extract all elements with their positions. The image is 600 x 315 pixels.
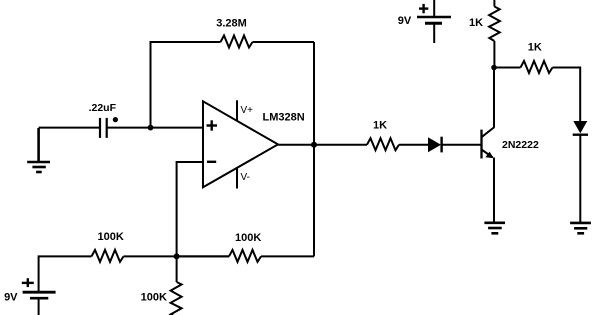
- svg-text:100K: 100K: [98, 231, 124, 243]
- resistor R3 1K vertical collector pull-up: [489, 0, 500, 68]
- resistor R2 1K output series: [367, 138, 399, 150]
- wire R7 to feedback vertical: [261, 255, 314, 257]
- diode D2 to ground: [573, 121, 588, 135]
- op-amp U1 minus input symbol: [207, 161, 216, 163]
- resistor R4 1K top right: [521, 61, 553, 73]
- node D junction dot: [174, 253, 180, 259]
- battery B1 9V top: [417, 0, 451, 43]
- resistor R6 100K vertical: [171, 256, 182, 315]
- wire D2 to ground: [579, 135, 581, 222]
- wire R2 to diode D1: [399, 144, 428, 146]
- svg-text:9V: 9V: [398, 15, 412, 27]
- svg-text:3.28M: 3.28M: [216, 18, 247, 30]
- svg-text:2N2222: 2N2222: [502, 139, 539, 151]
- wire capacitor to op-amp + input: [107, 127, 203, 129]
- wire feedback top right: [253, 41, 315, 43]
- wire feedback left vertical: [150, 42, 152, 128]
- svg-text:1K: 1K: [528, 42, 542, 54]
- wire node D to R7: [177, 255, 229, 257]
- capacitor C1 .22uF: [100, 118, 107, 138]
- svg-text:100K: 100K: [141, 292, 167, 304]
- resistor R1 3.28M: [221, 36, 253, 48]
- svg-text:LM328N: LM328N: [263, 112, 305, 124]
- wire battery B2 to R5: [39, 256, 92, 291]
- op-amp U1 V+ pin: [236, 100, 238, 121]
- wire Q1 emitter vertical: [493, 158, 495, 223]
- ground GND2 emitter: [484, 223, 505, 234]
- polarity dot of C1: [113, 117, 118, 122]
- wire node D to op-amp minus input: [177, 162, 203, 256]
- op-amp U1 V- pin: [236, 168, 238, 189]
- wire feedback top left: [150, 41, 221, 43]
- wire R5 to node D: [124, 255, 230, 257]
- ground GND1 input ground: [27, 128, 50, 172]
- wire D1 to Q1 base: [442, 144, 482, 146]
- ground GND3 right: [570, 223, 591, 233]
- op-amp U1 plus input symbol: [207, 120, 218, 130]
- wire R4 to diode D2: [553, 68, 581, 122]
- diode D1: [428, 137, 442, 153]
- node A junction dot: [148, 125, 154, 131]
- resistor R7 100K: [229, 250, 261, 262]
- wire feedback right vertical down to bottom loop: [313, 42, 315, 256]
- svg-text:1K: 1K: [469, 17, 483, 29]
- battery B2 plus sign: [22, 278, 34, 287]
- transistor Q1 2N2222: [482, 127, 495, 158]
- svg-text:100K: 100K: [235, 232, 261, 244]
- svg-text:V-: V-: [241, 172, 250, 183]
- battery B1 plus sign: [419, 4, 428, 13]
- svg-text:1K: 1K: [373, 120, 387, 132]
- wire Q1 collector vertical: [493, 68, 495, 128]
- battery B2 9V bottom: [23, 292, 56, 315]
- wire collector node to R4: [494, 67, 521, 69]
- svg-text:.22uF: .22uF: [89, 102, 117, 114]
- op-amp U1 LM328N triangle: [203, 101, 278, 187]
- node B output junction dot: [311, 142, 317, 148]
- wire input ground to capacitor C1: [39, 127, 100, 129]
- svg-text:9V: 9V: [4, 292, 18, 304]
- resistor R5 100K: [92, 250, 124, 262]
- node C collector junction dot: [491, 65, 497, 71]
- wire op-amp output: [278, 144, 367, 146]
- svg-text:V+: V+: [241, 105, 254, 116]
